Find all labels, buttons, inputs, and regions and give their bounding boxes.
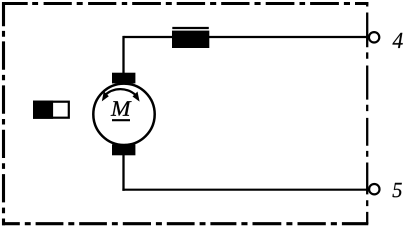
motor M1: left arrowhead (102, 91, 109, 101)
motor M1: bidirectional rotation arc (105, 89, 137, 96)
motor M1: bottom brush (112, 144, 135, 155)
enclosure boundary frame: top dash-dot border (2, 2, 368, 5)
motor M1: right arrowhead (133, 92, 140, 102)
motor M1: letter M (italic serif glyph outline) (111, 101, 132, 115)
terminal 5: label "5" (italic serif glyph outline) (393, 183, 402, 197)
enclosure boundary frame: right dash-dot border (366, 2, 368, 224)
enclosure boundary frame: bottom dash-dot border (2, 222, 368, 225)
enclosure boundary frame: left dash-dot border (2, 2, 5, 225)
motor M1: body circle (93, 84, 154, 145)
wire: bottom horizontal from motor corner to terminal 5 (122, 189, 369, 191)
motor M1: underline under M (112, 119, 130, 121)
permanent magnet (half-filled rectangle) (33, 101, 69, 119)
resistor top bar (172, 27, 209, 29)
terminal 4: label "4" (italic serif glyph outline) (392, 33, 402, 48)
terminal 4: circle on boundary (369, 32, 379, 42)
resistor R (filled block) in top wire (172, 31, 209, 48)
motor M1: top brush (112, 73, 135, 84)
wire: vertical from motor bottom brush down to bottom wire (122, 153, 124, 191)
wire: top horizontal from motor corner to terminal 4 (124, 36, 369, 38)
wire: vertical from top wire down to motor top brush (122, 36, 124, 74)
terminal 5: circle on boundary (369, 184, 379, 194)
